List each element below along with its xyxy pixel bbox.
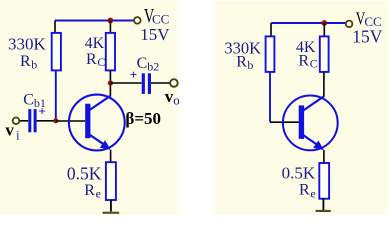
ground — [316, 210, 331, 212]
svg-text:b: b — [31, 58, 37, 72]
svg-text:C: C — [97, 55, 105, 69]
wire: top supply rail — [55, 20, 133, 22]
svg-text:e: e — [96, 187, 101, 201]
resistor Re — [106, 162, 116, 200]
svg-text:C: C — [23, 92, 34, 109]
svg-text:b2: b2 — [147, 59, 159, 73]
wire: Cb1 to base node — [37, 120, 56, 122]
label RC — [298, 53, 317, 71]
svg-text:R: R — [236, 54, 247, 71]
terminal VCC — [134, 17, 141, 24]
label vo — [165, 87, 180, 107]
label Rb — [20, 53, 37, 72]
terminal vo — [170, 79, 178, 87]
node: base junction dot — [53, 118, 58, 123]
svg-text:15V: 15V — [352, 27, 383, 47]
svg-text:330K: 330K — [8, 35, 47, 54]
wire: base lead horizontal — [270, 121, 299, 123]
resistor RC — [106, 33, 115, 71]
svg-text:v: v — [5, 121, 14, 140]
terminal VCC — [346, 21, 353, 28]
svg-text:0.5K: 0.5K — [282, 164, 316, 183]
label Re — [299, 182, 316, 201]
ground — [103, 212, 120, 214]
wire: Rb bottom down to base level — [269, 72, 271, 122]
label VCC — [144, 3, 169, 26]
svg-text:e: e — [310, 186, 315, 200]
svg-text:o: o — [173, 93, 180, 108]
wire: emitter lead to Re — [323, 150, 325, 163]
capacitor Cb2 — [142, 73, 151, 94]
node: collector junction dot — [108, 80, 113, 85]
wire: RC bottom to collector — [109, 70, 111, 96]
svg-text:4K: 4K — [85, 35, 105, 52]
capacitor Cb1 — [28, 109, 36, 132]
label vi — [5, 121, 20, 143]
node: supply junction dot — [321, 20, 327, 26]
transistor Q1 — [69, 95, 125, 151]
label VCC — [356, 10, 382, 29]
wire: Re to ground — [110, 200, 112, 212]
resistor Re — [319, 163, 329, 199]
resistor Rb — [52, 33, 61, 71]
label Re — [84, 182, 101, 201]
wire: Cb2 to vo terminal — [151, 82, 170, 84]
wire: vi to Cb1 — [20, 120, 29, 122]
node: supply junction dot — [108, 18, 114, 24]
transistor Q2 — [283, 96, 338, 151]
wire: corner lead into Rb top — [270, 23, 272, 36]
label Cb1 — [23, 92, 46, 111]
svg-text:C: C — [310, 57, 318, 71]
svg-text:C: C — [137, 55, 148, 72]
svg-text:0.5K: 0.5K — [67, 164, 102, 184]
svg-text:R: R — [86, 51, 97, 68]
wire: top supply rail — [271, 22, 345, 24]
wire: emitter lead to Re — [110, 150, 112, 162]
svg-text:b: b — [247, 58, 253, 72]
wire: Re to ground — [322, 199, 324, 211]
svg-text:β=50: β=50 — [125, 109, 161, 128]
wire: base lead — [56, 120, 85, 122]
wire: Rb bottom to base node — [55, 70, 57, 119]
resistor Rb — [266, 36, 275, 72]
wire: lead into RC top — [323, 23, 325, 36]
wire: lead into RC top — [109, 21, 111, 34]
svg-text:R: R — [299, 182, 310, 199]
label RC — [86, 51, 105, 69]
terminal vi — [13, 118, 20, 125]
resistor RC — [320, 36, 329, 72]
svg-text:R: R — [298, 53, 309, 70]
label Rb — [236, 54, 253, 73]
svg-text:15V: 15V — [140, 25, 170, 44]
svg-text:R: R — [84, 182, 95, 199]
label Cb2 — [137, 55, 160, 74]
wire: collector tap to Cb2 — [110, 82, 141, 84]
wire: corner lead into Rb top — [54, 21, 56, 34]
svg-text:i: i — [16, 128, 20, 143]
svg-text:R: R — [20, 53, 31, 70]
svg-text:b1: b1 — [34, 96, 46, 110]
wire: RC bottom to collector — [323, 72, 325, 97]
